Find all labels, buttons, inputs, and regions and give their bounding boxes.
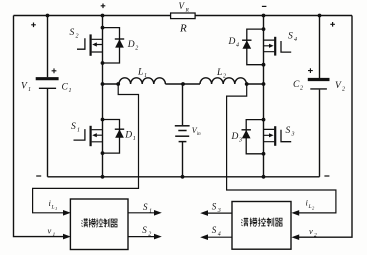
diode D3 branch bbox=[242, 120, 264, 154]
junction node battery / bottom rail bbox=[181, 175, 185, 179]
svg-text:D: D bbox=[124, 131, 132, 141]
polarity minus bottom-right port bbox=[324, 175, 329, 177]
arrowhead iL1 into left controller bbox=[63, 210, 71, 216]
resistor R bbox=[171, 13, 196, 19]
wire left outer vertical (V1 port / v1 sense) bbox=[14, 16, 64, 237]
junction node top rail / C2 bbox=[318, 14, 322, 18]
capacitor C2 branch wire bottom bbox=[319, 90, 321, 177]
svg-text:L: L bbox=[308, 204, 312, 210]
diode D2 branch bbox=[103, 28, 125, 63]
svg-text:2: 2 bbox=[300, 86, 303, 92]
wire S2 gate drive output bbox=[128, 236, 155, 238]
capacitor C2 plates bbox=[308, 78, 330, 81]
wire S4 gate drive output bbox=[207, 236, 232, 238]
polarity plus top-right port bbox=[330, 22, 335, 27]
svg-text:1: 1 bbox=[133, 136, 136, 142]
svg-text:1: 1 bbox=[53, 232, 56, 238]
svg-text:2: 2 bbox=[342, 87, 345, 93]
svg-text:2: 2 bbox=[148, 231, 151, 237]
wire iL2 sense tap bbox=[227, 85, 336, 213]
arrowhead S1 MOSFET body arrow bbox=[92, 133, 97, 137]
arrowhead v2 into right controller bbox=[291, 234, 299, 240]
svg-text:R: R bbox=[185, 8, 190, 14]
svg-text:S: S bbox=[212, 202, 217, 212]
capacitor C1 branch wire top bbox=[47, 16, 49, 78]
junction node top rail / C1 bbox=[46, 14, 50, 18]
arrowhead v1 into left controller bbox=[63, 234, 71, 240]
svg-text:D: D bbox=[228, 37, 236, 47]
svg-text:3: 3 bbox=[291, 132, 295, 138]
junction node top rail / right leg bbox=[262, 14, 266, 18]
junction node left leg / midrail bbox=[101, 82, 105, 86]
svg-text:L: L bbox=[51, 205, 55, 211]
capacitor C2 branch wire top bbox=[319, 16, 321, 79]
svg-text:v: v bbox=[48, 226, 52, 236]
junction node S1 drain bbox=[101, 118, 105, 122]
junction node S3 source bbox=[262, 152, 266, 156]
svg-text:2: 2 bbox=[314, 233, 317, 239]
svg-text:S: S bbox=[70, 28, 75, 38]
svg-text:4: 4 bbox=[218, 231, 221, 238]
svg-text:4: 4 bbox=[294, 36, 297, 43]
svg-text:4: 4 bbox=[236, 42, 239, 49]
svg-text:2: 2 bbox=[135, 46, 138, 52]
wire battery top lead bbox=[182, 84, 184, 125]
transistor S1 (MOSFET) bbox=[74, 126, 103, 146]
battery Vin plates bbox=[175, 125, 190, 127]
junction node right leg / midrail bbox=[262, 82, 266, 86]
label sliding-mode controller text (right box) bbox=[241, 218, 282, 227]
wire battery bottom lead bbox=[182, 142, 184, 177]
svg-text:S: S bbox=[288, 32, 293, 42]
junction node right leg / bottom rail bbox=[262, 175, 266, 179]
junction node S4 source bbox=[262, 63, 266, 67]
wire S1 gate drive output bbox=[128, 212, 155, 214]
svg-text:L: L bbox=[216, 68, 222, 78]
wire S3 gate drive output bbox=[207, 212, 232, 214]
svg-text:C: C bbox=[293, 80, 300, 90]
transistor S2 (MOSFET) bbox=[77, 34, 103, 55]
svg-text:1: 1 bbox=[77, 128, 80, 134]
capacitor C1 plates bbox=[36, 77, 59, 80]
controller box right (sliding-mode controller 2) bbox=[232, 202, 291, 250]
svg-text:1: 1 bbox=[149, 209, 152, 215]
svg-text:R: R bbox=[179, 23, 187, 35]
wire bottom rail bbox=[48, 176, 320, 178]
polarity plus C2 bbox=[308, 68, 313, 73]
wire top rail right segment bbox=[195, 15, 352, 17]
junction node S1 source bbox=[101, 151, 105, 155]
svg-text:L: L bbox=[137, 68, 143, 78]
polarity plus top-left port bbox=[31, 23, 36, 28]
svg-text:S: S bbox=[71, 122, 76, 132]
junction node S2 source bbox=[101, 61, 105, 65]
wire right outer vertical (V2 port / v2 sense) bbox=[298, 16, 352, 238]
svg-text:S: S bbox=[212, 225, 217, 235]
arrowhead S3 output bbox=[200, 210, 208, 216]
svg-text:3: 3 bbox=[217, 208, 221, 214]
arrowhead S4 output bbox=[200, 234, 208, 240]
arrowhead iL2 into right controller bbox=[291, 210, 299, 216]
svg-text:2: 2 bbox=[223, 74, 226, 80]
arrowhead S4 MOSFET body arrow bbox=[269, 44, 274, 48]
polarity minus bottom-left port bbox=[36, 175, 41, 177]
label sliding-mode controller text (left box) bbox=[81, 218, 117, 227]
junction node midrail / battery bbox=[181, 82, 185, 86]
polarity plus top rail left bbox=[101, 4, 106, 9]
wire midrail left of L1 bbox=[103, 83, 120, 85]
transistor S3 (MOSFET) bbox=[264, 126, 292, 146]
svg-text:S: S bbox=[143, 202, 148, 212]
transistor S4 (MOSFET) bbox=[264, 37, 292, 56]
svg-text:C: C bbox=[62, 83, 69, 93]
wire iL1 sense tap bbox=[33, 85, 139, 213]
junction node left leg / bottom rail bbox=[101, 175, 105, 179]
svg-text:V: V bbox=[335, 81, 342, 91]
inductor L1 bbox=[119, 78, 165, 84]
svg-text:1: 1 bbox=[69, 88, 72, 94]
wire midrail L1 to battery node bbox=[165, 83, 200, 85]
svg-text:2: 2 bbox=[312, 206, 315, 211]
polarity plus C1 bbox=[52, 68, 57, 73]
controller box left (sliding-mode controller 1) bbox=[70, 199, 128, 250]
junction node L1 left terminal bbox=[116, 82, 120, 86]
svg-text:D: D bbox=[231, 132, 239, 142]
svg-text:V: V bbox=[21, 82, 28, 92]
wire top rail left segment bbox=[14, 15, 171, 17]
diode D4 branch bbox=[242, 29, 263, 65]
inductor L2 bbox=[200, 78, 246, 84]
svg-text:1: 1 bbox=[28, 87, 31, 93]
svg-text:S: S bbox=[286, 126, 291, 136]
svg-text:3: 3 bbox=[238, 138, 242, 144]
junction node top rail / left leg bbox=[101, 14, 105, 18]
junction node S2 drain bbox=[101, 26, 105, 30]
svg-text:1: 1 bbox=[55, 206, 57, 211]
svg-text:V: V bbox=[179, 1, 186, 11]
arrowhead S3 MOSFET body arrow bbox=[269, 133, 274, 137]
svg-text:2: 2 bbox=[76, 34, 79, 40]
arrowhead S2 MOSFET body arrow bbox=[92, 42, 97, 46]
arrowhead S1 output bbox=[154, 210, 162, 216]
arrowhead S2 output bbox=[154, 234, 162, 240]
wire right leg vertical bbox=[263, 16, 265, 177]
svg-text:1: 1 bbox=[144, 73, 147, 79]
wire midrail right of L2 bbox=[246, 83, 263, 85]
svg-text:in: in bbox=[197, 132, 201, 137]
junction node S4 drain bbox=[262, 27, 266, 31]
svg-text:S: S bbox=[142, 225, 147, 235]
junction node S3 drain bbox=[262, 118, 266, 122]
svg-text:D: D bbox=[127, 40, 135, 50]
wire left leg vertical bbox=[102, 16, 104, 177]
junction node L2 right terminal bbox=[245, 82, 249, 86]
polarity minus top rail right bbox=[262, 5, 267, 7]
capacitor C1 branch wire bottom bbox=[47, 89, 49, 177]
svg-text:v: v bbox=[309, 226, 313, 236]
diode D1 branch bbox=[103, 120, 125, 154]
